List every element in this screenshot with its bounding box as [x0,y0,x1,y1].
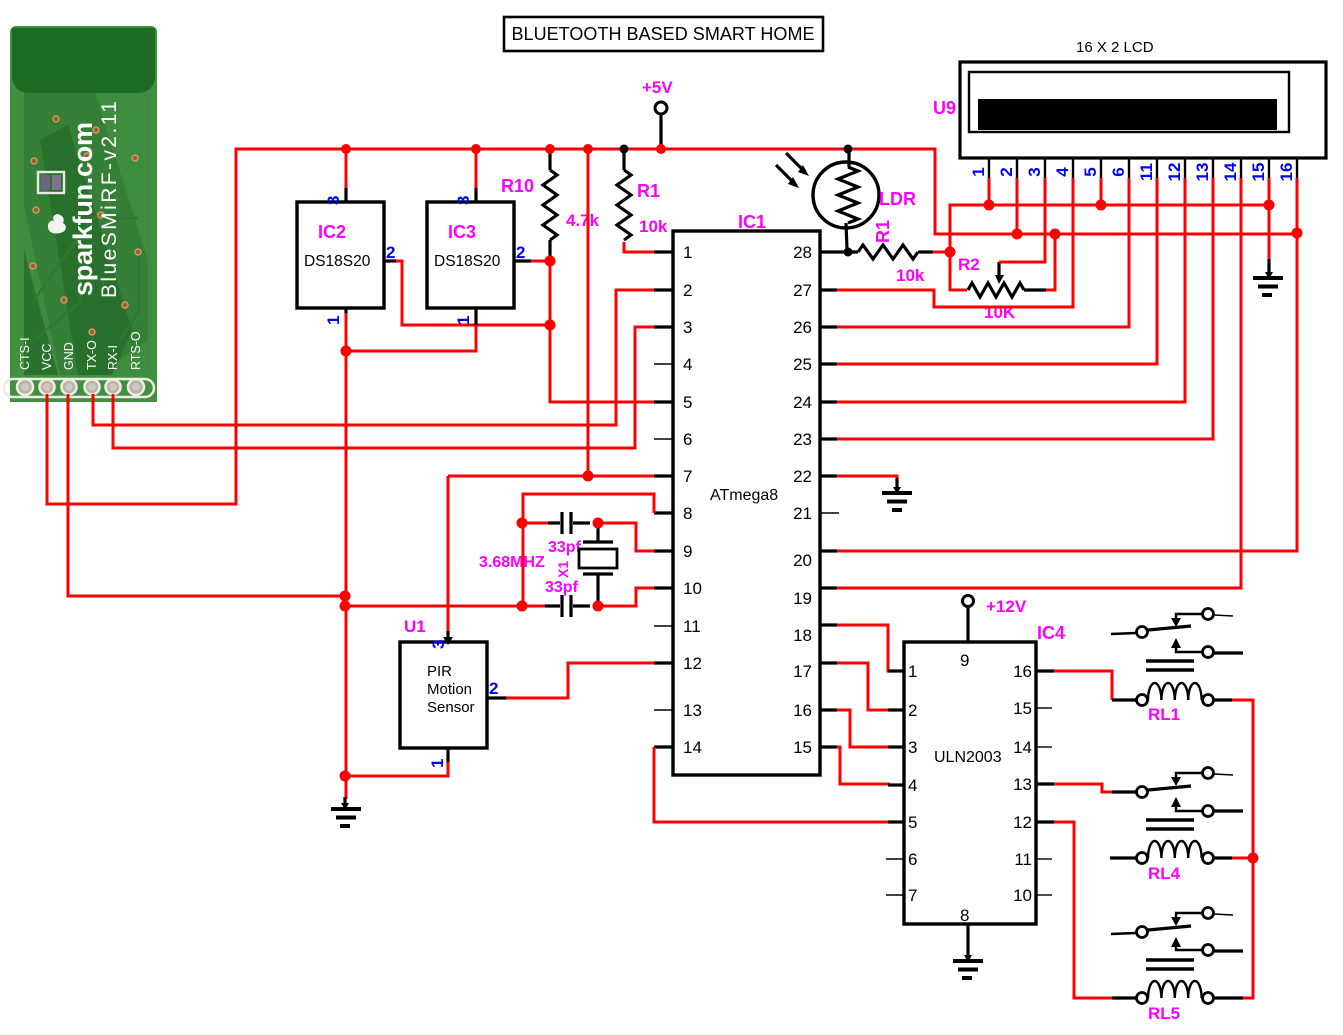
Bluetooth module U-BlueSMiRF photo [10,26,157,402]
svg-text:21: 21 [793,504,812,523]
IC2 DS18S20 [297,187,397,325]
svg-text:4.7k: 4.7k [566,211,600,230]
wire caps left vertical [522,494,525,606]
svg-text:R2: R2 [958,255,980,274]
svg-text:5: 5 [1081,167,1100,176]
wire rail to IC1 pin7 [587,151,590,476]
wire PIR pin2 to IC1 pin12 [506,663,654,698]
svg-text:1: 1 [908,662,917,681]
svg-text:9: 9 [683,542,692,561]
junction dots top rail [341,144,351,154]
module pin labels [18,331,143,370]
svg-text:16: 16 [1277,163,1296,182]
svg-text:2: 2 [997,167,1016,176]
svg-text:15: 15 [1249,163,1268,182]
+12V supply [963,596,1027,643]
junction dot pin7 [583,471,594,482]
svg-text:U1: U1 [404,617,426,636]
junction dot IC pin1 bus [341,346,352,357]
svg-text:5: 5 [908,813,917,832]
ULN left pin stubs [886,671,904,895]
wire IC1 pin26 to LCD pin6 [837,178,1129,327]
svg-text:DS18S20: DS18S20 [304,253,371,270]
wire LCD pin2 [1016,178,1019,234]
wire IC3 pin2 to R10 node [531,260,548,263]
LCD pin numbers [969,162,1296,181]
junction dots LCD lines [984,200,995,211]
wire ULN pin12 to RL5 coil [1054,822,1130,998]
wire node up to LCD line [950,205,1269,252]
svg-text:5: 5 [683,393,692,412]
svg-text:3: 3 [454,196,473,205]
wire IC1 pin23 to LCD pin13 [837,178,1213,439]
module SMD component [38,172,64,193]
module copper vias [30,116,141,335]
svg-text:3: 3 [324,196,343,205]
wire IC3 pin3 to rail [475,151,478,188]
ULN right pin stubs [1036,671,1054,895]
wire IC1 pin22 to ground [837,476,897,480]
svg-text:11: 11 [1137,163,1156,181]
wire C1 to IC1 pin9 [598,523,654,551]
wire pin7 line to PIR riser [448,475,654,478]
ground module bus [331,797,361,826]
wire IC1 pin19 to LCD pin14 [837,178,1241,588]
ULN2003 IC4 [904,623,1065,925]
ground LCD pin15 [1253,259,1283,295]
junction dots crystal caps [517,518,528,529]
svg-text:12: 12 [683,654,702,673]
IC1 right pin numbers [793,243,812,757]
svg-text:18: 18 [793,626,812,645]
svg-text:15: 15 [793,738,812,757]
svg-text:R10: R10 [501,176,534,196]
svg-text:2: 2 [489,679,498,698]
IC1 left pin stubs [654,252,673,747]
svg-text:2: 2 [908,701,917,720]
svg-text:14: 14 [683,738,702,757]
LDR [776,145,916,250]
junction dot IC2-2 node [545,320,556,331]
svg-text:BlueSMiRF-v2.11: BlueSMiRF-v2.11 [98,101,121,298]
svg-text:8: 8 [683,504,692,523]
svg-text:11: 11 [683,617,701,636]
svg-text:16: 16 [1013,662,1032,681]
svg-text:13: 13 [1193,163,1212,182]
svg-text:IC2: IC2 [318,222,346,242]
svg-text:IC4: IC4 [1037,623,1065,643]
wire R1 to node [933,251,950,254]
svg-text:3: 3 [683,318,692,337]
resistor R10 4.7k [501,151,600,258]
svg-text:8: 8 [960,906,969,925]
svg-text:1: 1 [324,316,343,325]
svg-text:7: 7 [908,886,917,905]
svg-text:6: 6 [908,850,917,869]
wire module GND to ground bus [68,394,345,596]
wire IC1 pin25 to LCD pin11 [837,178,1157,364]
wire R1 to IC1 pin1 [624,242,654,252]
svg-text:R1: R1 [873,220,893,243]
relay RL5 [1111,908,1243,1024]
wire +5V rail / VCC from module [47,149,1297,504]
svg-text:24: 24 [793,393,812,412]
wire IC1 pin16 to ULN pin3 [837,710,890,747]
wire LCD pin3 to R2 wiper [999,178,1045,262]
svg-text:RL1: RL1 [1148,705,1180,724]
svg-text:1: 1 [683,243,692,262]
wire IC1 pin24 to LCD pin12 [837,178,1185,402]
svg-text:10: 10 [683,579,702,598]
svg-text:28: 28 [793,243,812,262]
svg-text:RX-I: RX-I [106,345,120,370]
svg-text:22: 22 [793,467,812,486]
svg-text:10: 10 [1013,886,1032,905]
svg-text:4: 4 [908,776,917,795]
wire C2 to IC1 pin10 [598,588,654,606]
wire IC1 pin20 to LCD pin16 [837,178,1297,551]
svg-text:3: 3 [1025,167,1044,176]
module pads CTS-I VCC GND TX-O RX-I RTS-O [4,379,154,397]
svg-text:U9: U9 [933,98,956,118]
svg-text:1: 1 [969,167,988,176]
wire RL4 coil to bus [1232,857,1253,860]
wire IC1 pin27 to LCD pin4 [837,178,1073,307]
wire caps common to ground bus [345,605,545,608]
svg-text:+12V: +12V [986,597,1027,616]
svg-text:3: 3 [908,738,917,757]
wire ULN pin16 to RL1 coil [1054,671,1112,700]
crystal circuit: wire pin8 loop [523,494,654,523]
junction dots ground bus [340,591,351,602]
svg-text:12: 12 [1013,813,1032,832]
svg-text:27: 27 [793,281,812,300]
svg-text:PIR: PIR [427,663,452,680]
svg-text:DS18S20: DS18S20 [434,253,501,270]
wire PIR pin3 riser [447,476,450,633]
svg-text:10k: 10k [896,266,925,285]
svg-text:IC3: IC3 [448,222,476,242]
wire node to IC1 pin5 [550,262,654,402]
capacitor C1 33pf top [521,512,590,556]
wire R2 right to +5V line [1046,234,1055,290]
junction dot LDR node [945,247,956,258]
svg-text:2: 2 [386,243,395,262]
svg-text:17: 17 [793,662,812,681]
svg-text:BLUETOOTH BASED SMART HOME: BLUETOOTH BASED SMART HOME [512,24,815,44]
wire LCD pin1 [988,178,991,205]
svg-text:IC1: IC1 [738,212,766,232]
svg-text:19: 19 [793,589,812,608]
svg-text:16 X 2 LCD: 16 X 2 LCD [1076,39,1154,56]
svg-text:1: 1 [454,316,473,325]
wire IC1 pin17 to ULN pin2 [837,663,890,710]
svg-text:12: 12 [1165,163,1184,182]
svg-text:14: 14 [1221,162,1240,181]
svg-text:16: 16 [793,701,812,720]
+5V supply symbol [642,78,673,149]
capacitor C2 33pf bottom [545,579,590,617]
title box BLUETOOTH BASED SMART HOME [504,17,823,51]
svg-text:Motion: Motion [427,681,472,698]
svg-text:3.68MHZ: 3.68MHZ [479,554,545,571]
wire module TX-O to IC1 pin2 [93,290,654,425]
wire IC1 pin14 to ULN pin5 [654,747,890,822]
wire PIR pin1 to ground bus [345,762,448,776]
svg-text:RTS-O: RTS-O [129,331,143,370]
IC3 DS18S20 [427,187,531,326]
module sparkfun flame logo [48,214,66,234]
potentiometer R2 10K [958,255,1046,322]
svg-text:11: 11 [1014,850,1032,869]
svg-text:2: 2 [516,243,525,262]
ground IC1 pin22 [882,478,912,510]
resistor R1 10k (LDR divider) [837,220,933,285]
LCD 16x2 U9 [933,39,1326,158]
svg-text:6: 6 [683,430,692,449]
PIR motion sensor U1 [400,617,508,768]
svg-text:1: 1 [428,759,447,768]
svg-text:25: 25 [793,355,812,374]
relay RL1 [1111,609,1243,725]
resistor R1 10k (pullup) [617,145,668,241]
wire IC2 pin1 / ground bus vertical [345,313,348,799]
IC1 right pin stubs [820,252,839,747]
svg-text:9: 9 [960,651,969,670]
svg-text:15: 15 [1013,699,1032,718]
svg-text:RL4: RL4 [1148,864,1181,883]
IC1 left pin numbers [683,243,702,757]
svg-text:13: 13 [1013,775,1032,794]
ULN pin numbers [908,662,917,905]
svg-text:TX-O: TX-O [85,340,99,370]
svg-text:2: 2 [683,281,692,300]
svg-text:GND: GND [62,342,76,370]
wire LCD pin15 to ground [1268,178,1271,261]
svg-text:RL5: RL5 [1148,1004,1180,1023]
wire IC2 pin2 to node [396,261,550,325]
svg-text:6: 6 [1109,167,1128,176]
svg-text:26: 26 [793,318,812,337]
svg-text:CTS-I: CTS-I [18,337,32,370]
wire IC1 pin15 to ULN pin4 [837,747,890,784]
wire ULN pin13 to RL4 switch [1054,784,1112,792]
crystal X1 3.68MHZ [479,523,617,606]
wire IC2 pin3 to rail [345,151,348,188]
svg-text:X1: X1 [555,561,571,578]
svg-text:3: 3 [429,640,448,649]
junction dot coil bus [1248,853,1259,864]
svg-text:sparkfun.com: sparkfun.com [68,122,98,296]
wire LCD pin5 [1100,178,1103,205]
svg-text:23: 23 [793,430,812,449]
junction dot R10/IC3-2 node [545,256,556,267]
svg-text:14: 14 [1013,738,1032,757]
relay RL4 [1110,768,1243,884]
svg-text:Sensor: Sensor [427,699,475,716]
svg-text:20: 20 [793,551,812,570]
wire node down to R2 left [950,252,967,290]
svg-text:4: 4 [683,355,692,374]
svg-text:4: 4 [1053,167,1072,177]
LCD pin stubs [989,159,1297,178]
svg-text:R1: R1 [637,181,660,201]
svg-text:ULN2003: ULN2003 [934,749,1002,766]
wire IC3 pin1 down-left to ground bus [346,325,476,351]
svg-text:ATmega8: ATmega8 [710,487,778,504]
svg-text:33pf: 33pf [545,579,579,596]
svg-text:33pf: 33pf [548,539,582,556]
wire IC1 pin18 to ULN pin1 [837,625,890,671]
IC1 ATmega8 [673,212,820,775]
svg-text:LDR: LDR [879,189,916,209]
svg-text:10k: 10k [639,217,668,236]
svg-text:VCC: VCC [40,344,54,370]
svg-text:13: 13 [683,701,702,720]
wire module RX-I to IC1 pin3 [113,327,654,448]
wire relay coil bus + [1232,700,1253,998]
svg-text:7: 7 [683,467,692,486]
ground ULN pin8 [953,924,983,978]
svg-text:+5V: +5V [642,78,673,97]
